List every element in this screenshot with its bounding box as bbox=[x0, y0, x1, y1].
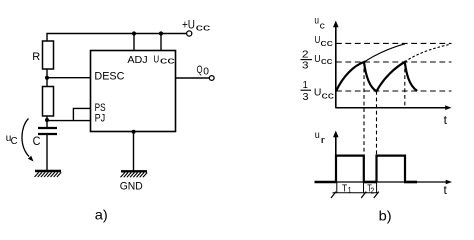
svg-text:GND: GND bbox=[120, 180, 143, 192]
wire DESC pin bbox=[47, 77, 91, 79]
svg-text:u: u bbox=[314, 15, 319, 27]
svg-text:cc: cc bbox=[321, 56, 333, 66]
terminal Q0 open circle bbox=[209, 76, 214, 81]
capacitor voltage waveform bbox=[336, 62, 417, 91]
svg-text:3: 3 bbox=[303, 91, 309, 103]
node B junction dot bbox=[45, 118, 49, 122]
wire capacitor to ground bbox=[46, 135, 48, 171]
terminal +Ucc open circle bbox=[187, 31, 192, 36]
output pulse 2 bbox=[377, 156, 406, 182]
svg-text:C: C bbox=[11, 136, 18, 147]
svg-text:r: r bbox=[321, 135, 326, 146]
svg-text:b): b) bbox=[379, 208, 392, 224]
output pulse 1 bbox=[336, 156, 364, 182]
svg-text:1: 1 bbox=[303, 79, 308, 91]
plot 1 x-axis arrowhead bbox=[445, 105, 451, 110]
svg-text:1: 1 bbox=[348, 185, 352, 195]
resistor R bbox=[43, 41, 54, 69]
wire PJ pin bbox=[47, 120, 91, 122]
svg-text:cc: cc bbox=[320, 38, 333, 48]
plot 2 y-axis arrowhead bbox=[333, 131, 339, 138]
node A junction dot bbox=[45, 76, 49, 80]
svg-text:3: 3 bbox=[302, 60, 309, 72]
dimension slash 1 bbox=[331, 192, 336, 198]
plot 1 y-axis bbox=[335, 24, 337, 108]
wire ADJ pin bbox=[133, 34, 135, 51]
plot 2 x-axis arrowhead bbox=[446, 180, 452, 185]
ground left bar bbox=[35, 170, 61, 172]
svg-text:0: 0 bbox=[203, 65, 209, 77]
dashed vertical t1 bbox=[363, 62, 365, 155]
svg-text:U: U bbox=[153, 54, 159, 66]
extension line T2 end bbox=[376, 182, 378, 193]
svg-text:PJ: PJ bbox=[95, 112, 106, 124]
svg-text:ADJ: ADJ bbox=[127, 54, 147, 66]
wire GND pin bbox=[133, 132, 135, 171]
svg-text:U: U bbox=[314, 86, 322, 98]
dashed vertical t2 bbox=[376, 91, 378, 155]
svg-text:u: u bbox=[315, 129, 320, 141]
wire node B to capacitor bbox=[46, 120, 48, 127]
svg-text:DESC: DESC bbox=[94, 71, 124, 83]
node dot ADJ rail junction bbox=[132, 31, 136, 35]
wire PS pin loop bbox=[73, 108, 90, 120]
extension line T1 end bbox=[363, 182, 365, 193]
zero level thick segment left bbox=[315, 181, 337, 184]
svg-text:U: U bbox=[314, 53, 320, 65]
svg-text:cc: cc bbox=[196, 22, 211, 33]
dimension slash 2 bbox=[361, 192, 366, 198]
svg-text:T: T bbox=[342, 183, 347, 194]
plot 1 x-axis bbox=[335, 107, 446, 109]
svg-text:a): a) bbox=[95, 207, 108, 223]
node 1/3 dashed level line bbox=[336, 90, 452, 92]
charge envelope curve 2 dashed bbox=[405, 44, 451, 62]
resistor R2 bbox=[43, 87, 54, 117]
uC arrowhead bbox=[28, 156, 34, 162]
svg-text:c: c bbox=[320, 20, 325, 31]
wire R to node A bbox=[46, 69, 48, 78]
zero level thick segment middle bbox=[363, 181, 377, 184]
zero level thick segment right bbox=[404, 181, 417, 184]
charge envelope curve 1 bbox=[364, 44, 405, 62]
svg-text:cc: cc bbox=[160, 56, 175, 67]
plot 2 y-axis bbox=[335, 134, 337, 182]
ground GND bar bbox=[121, 170, 147, 172]
node dot GND pin at box bbox=[132, 130, 136, 134]
node Ucc dashed level line bbox=[336, 42, 452, 44]
dimension line T1 T2 bbox=[333, 192, 379, 194]
uC arrow arc bbox=[22, 119, 29, 157]
svg-text:R: R bbox=[32, 51, 40, 63]
ground left hatch bbox=[35, 172, 62, 177]
wire Ucc pin bbox=[160, 34, 162, 51]
svg-text:C: C bbox=[33, 134, 41, 148]
dimension slash 3 bbox=[374, 192, 379, 198]
svg-text:t: t bbox=[444, 113, 448, 127]
dashed vertical t3 bbox=[404, 62, 406, 107]
plot 2 x-axis bbox=[315, 181, 447, 183]
node 2/3 dashed level line bbox=[336, 61, 452, 63]
ground GND hatch bbox=[121, 173, 148, 178]
svg-text:t: t bbox=[444, 183, 448, 197]
capacitor C bottom plate bbox=[38, 133, 57, 135]
wire R2 to node B bbox=[46, 116, 48, 121]
wire top supply rail bbox=[47, 34, 187, 42]
svg-text:Q: Q bbox=[197, 64, 203, 76]
wire Q0 output bbox=[176, 77, 210, 79]
wire node A to R2 bbox=[46, 78, 48, 87]
node dot Ucc rail junction bbox=[159, 31, 163, 35]
plot 1 y-axis arrowhead bbox=[333, 21, 339, 28]
svg-text:cc: cc bbox=[322, 90, 335, 100]
extension line T1 start bbox=[336, 182, 338, 193]
svg-text:2: 2 bbox=[370, 186, 374, 196]
capacitor C top plate bbox=[38, 127, 57, 129]
svg-text:+U: +U bbox=[182, 19, 195, 31]
IC U1 timer box bbox=[91, 51, 176, 132]
